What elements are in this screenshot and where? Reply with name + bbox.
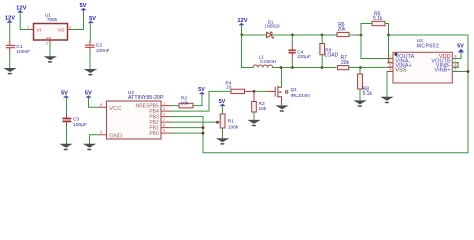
ground (below U1) [44,56,57,60]
svg-text:Q1: Q1 [291,87,298,93]
svg-text:8: 8 [100,103,102,107]
wire top rail C4 to R9 [293,34,323,36]
svg-text:220µF: 220µF [297,54,311,60]
ground (Q1 source) [275,105,288,109]
node C (R7/R8/VINA+) [359,66,362,69]
wire U1 VO to 5V [72,10,84,29]
svg-text:VINB+: VINB+ [434,68,450,74]
inductor L1 0.03mH [242,35,277,68]
svg-text:20k: 20k [337,26,346,32]
wire C3 to ground [66,121,68,126]
svg-text:1: 1 [163,101,165,105]
svg-text:3: 3 [69,26,71,30]
svg-text:4: 4 [389,68,391,72]
ground (below R3) [247,120,260,124]
node C4 bottom [291,66,294,69]
svg-text:C3: C3 [73,117,80,123]
wire VINB+ to loop [453,71,468,73]
svg-text:PB0: PB0 [149,131,159,137]
supply 5V (to U2 VCC) [85,91,92,98]
supply 5V (at C2) [88,16,96,23]
resistor R5 5.1k (feedback jog) [361,12,389,36]
pin 4 of U3 [388,68,394,72]
svg-text:0.03mH: 0.03mH [260,59,276,64]
wire R1 to ground [222,128,224,138]
diode D1 1N5819 [264,20,280,38]
wire L1 to drain node [273,67,282,69]
svg-text:100k: 100k [228,124,239,130]
svg-text:5V: 5V [457,44,464,50]
svg-text:U3: U3 [417,38,423,43]
svg-text:R3: R3 [259,101,265,107]
svg-text:20k: 20k [341,60,350,66]
wire VOUTB to VINB- feedback [453,63,458,67]
svg-text:C1: C1 [16,44,23,50]
pin 3 of U3 [388,63,394,67]
svg-text:MCP602: MCP602 [417,44,439,50]
node 12V [240,33,243,36]
svg-text:R1: R1 [228,119,234,125]
node R9 bottom [321,66,324,69]
wire C1 to ground [9,52,11,68]
svg-text:10k: 10k [181,101,189,107]
svg-text:5V: 5V [61,91,68,97]
wire R9 node to R6 [322,34,337,36]
wire R6 to node A [349,34,361,36]
pin 3 of U1 [68,26,72,30]
wire 12V to U1 pin1 [20,12,28,29]
svg-text:1N5819: 1N5819 [264,24,280,29]
supply 12V (to U1 VI) [16,5,26,12]
pin 6 of U2 [161,123,171,127]
resistor R2 10k [179,96,193,108]
wire PB1 [171,127,203,129]
svg-text:VI: VI [37,27,42,33]
svg-text:VO: VO [57,27,64,33]
pin 6 of U3 [453,63,459,67]
capacitor C4 220uF [289,35,311,68]
ground (below C1) [3,68,16,72]
svg-text:5.1k: 5.1k [373,16,383,22]
ground (below C2) [84,69,97,73]
wire R4 to Q1 gate [245,90,255,92]
wire Q1 drain to rail [281,68,283,87]
pin 4 of U2 [99,131,107,135]
wire load rail to R7 [322,67,336,69]
op-amp U3 MCP602 [393,38,452,83]
svg-text:LOAD: LOAD [325,53,339,59]
wire PB3 to bottom loop [171,117,203,153]
pin 1 of U2 [161,101,171,105]
wire node C to VINA+ [361,66,394,68]
pin 2 of U3 [388,59,394,63]
wire VDD to 5V [453,50,461,59]
svg-text:5.1k: 5.1k [363,91,373,97]
svg-text:IRLZ44N: IRLZ44N [291,93,311,99]
wire U1 GND to ground [49,45,51,57]
pin 2 of U2 [161,112,171,116]
supply 5V (R2 pullup) [198,87,205,94]
wire node B to VINA- [389,35,394,63]
wire PB2 to R1 wiper [171,121,218,123]
supply 5V (at U1 output) [79,3,86,10]
svg-text:2: 2 [163,112,165,116]
supply 12V (at C1) [5,15,15,22]
wire load rail [282,67,293,69]
capacitor C1 100nF [6,41,30,55]
pin 1 of U3 [388,55,394,59]
resistor R9 LOAD [320,35,339,68]
svg-text:7805: 7805 [47,17,58,22]
resistor R8 5.1k [358,68,373,101]
pin 8 of U3 [453,55,459,59]
svg-text:100nF: 100nF [16,49,30,55]
wire 5V to U2 VCC [89,98,99,108]
svg-text:100µF: 100µF [73,122,87,128]
svg-text:12V: 12V [237,18,247,24]
svg-text:10k: 10k [259,106,267,112]
wire PB4 to R4 [171,91,231,111]
node wiper [216,121,219,124]
pin 2 of U1 [46,40,50,46]
svg-text:6: 6 [163,123,165,127]
resistor R7 20k [337,55,349,70]
ground (below R1) [216,138,229,142]
pin 8 of U2 [99,103,107,107]
pin 7 of U3 [453,59,459,63]
svg-text:1: 1 [27,26,29,30]
node PB0 on loop [202,132,205,135]
wire 5V to C2 [89,23,91,41]
wire R2 to 5V [193,94,202,106]
wire node B to right edge loop [203,35,468,153]
wire D1 to node [274,34,293,36]
wire U2 GND to ground [90,135,99,144]
node D1/C4 [291,34,294,37]
wire 12V to rail [241,25,243,35]
wire node to gate [256,90,267,92]
wire 12V to C1 [9,22,11,41]
wire VSS to ground [386,72,389,97]
supply 5V (at C3) [61,91,69,98]
ground (U3 VSS) [380,97,393,101]
svg-text:3: 3 [163,107,165,111]
svg-text:ATTINY85-20P: ATTINY85-20P [128,95,164,101]
resistor R6 20k [337,22,349,37]
ground (below R8) [353,100,366,104]
svg-text:4: 4 [100,131,102,135]
wire C2 to ground [89,52,91,69]
node PB1 on loop [202,126,205,129]
wire node A to VOUTA [361,35,393,59]
pin 7 of U2 [161,118,171,122]
svg-text:7: 7 [163,118,165,122]
node drain [280,66,283,69]
node A (R6/R5/VOUTA) [360,34,363,37]
node B (R5/VINA-/loop) [387,34,390,37]
pin 1 of U1 [27,26,34,30]
resistor R4 10 [225,81,244,94]
resistor R3 10k [252,93,267,120]
wire R7 to node C [349,67,361,69]
svg-text:2: 2 [389,59,391,63]
capacitor C2 100nF [85,41,110,54]
wire PB0 [171,132,203,134]
transistor Q1 IRLZ44N [267,86,311,99]
svg-text:5: 5 [163,129,165,133]
node VINB+ on loop [467,70,470,73]
wire NRES to R2 [171,105,179,107]
svg-text:VCC: VCC [109,106,121,112]
wire 5V to R1 [222,106,224,114]
svg-text:10: 10 [226,85,232,91]
wire load rail to R9 [293,67,323,69]
svg-text:2: 2 [46,42,48,46]
potentiometer R1 100k [218,114,239,130]
microcontroller U2 ATTINY85-20P [107,90,164,140]
svg-text:GND: GND [109,134,122,140]
pin 5 of U2 [161,129,171,133]
wire 12V node to D1 [242,34,267,36]
node R4/R3/gate [253,90,256,93]
wire Q1 source to ground [281,97,283,105]
svg-text:5V: 5V [89,16,96,22]
svg-text:100nF: 100nF [96,48,110,54]
svg-text:C2: C2 [96,43,103,49]
ground (below U2) [83,144,96,148]
supply 5V (U3 VDD) [457,44,464,53]
pin 5 of U3 [453,68,459,72]
svg-text:VSS: VSS [395,68,406,74]
voltage regulator U1 7805 [34,12,68,40]
supply 5V (R1 top) [219,99,226,106]
wire 5V to C3 [66,98,68,114]
supply 12V (main input) [237,18,247,25]
svg-text:GND: GND [46,37,52,40]
node R9 top [321,34,324,37]
svg-text:12V: 12V [16,5,26,11]
ground (below C3) [59,144,72,148]
pin 3 of U2 [161,107,171,111]
capacitor C3 100uF [62,117,87,128]
